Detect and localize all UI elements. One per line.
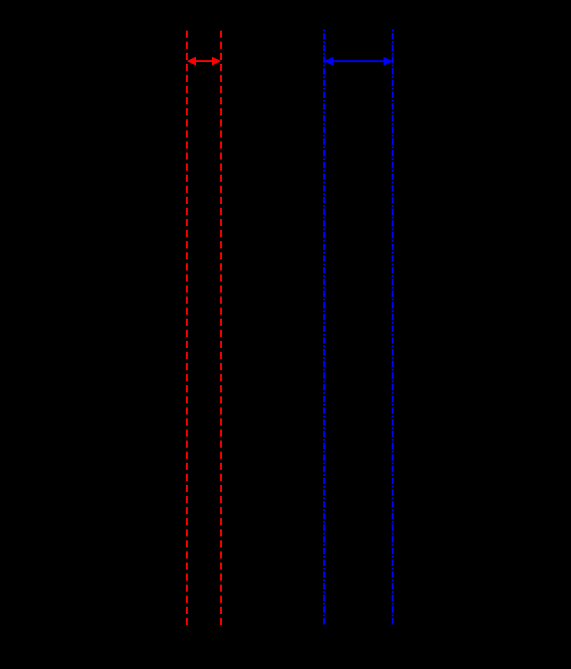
red double-headed arrow [187, 57, 221, 66]
blue double-headed arrow [324, 57, 393, 66]
blue dash-dot vertical line right [392, 30, 394, 626]
red dashed vertical line right [220, 31, 222, 625]
red dashed vertical line left [186, 31, 188, 625]
blue dash-dot vertical line left [323, 30, 325, 626]
